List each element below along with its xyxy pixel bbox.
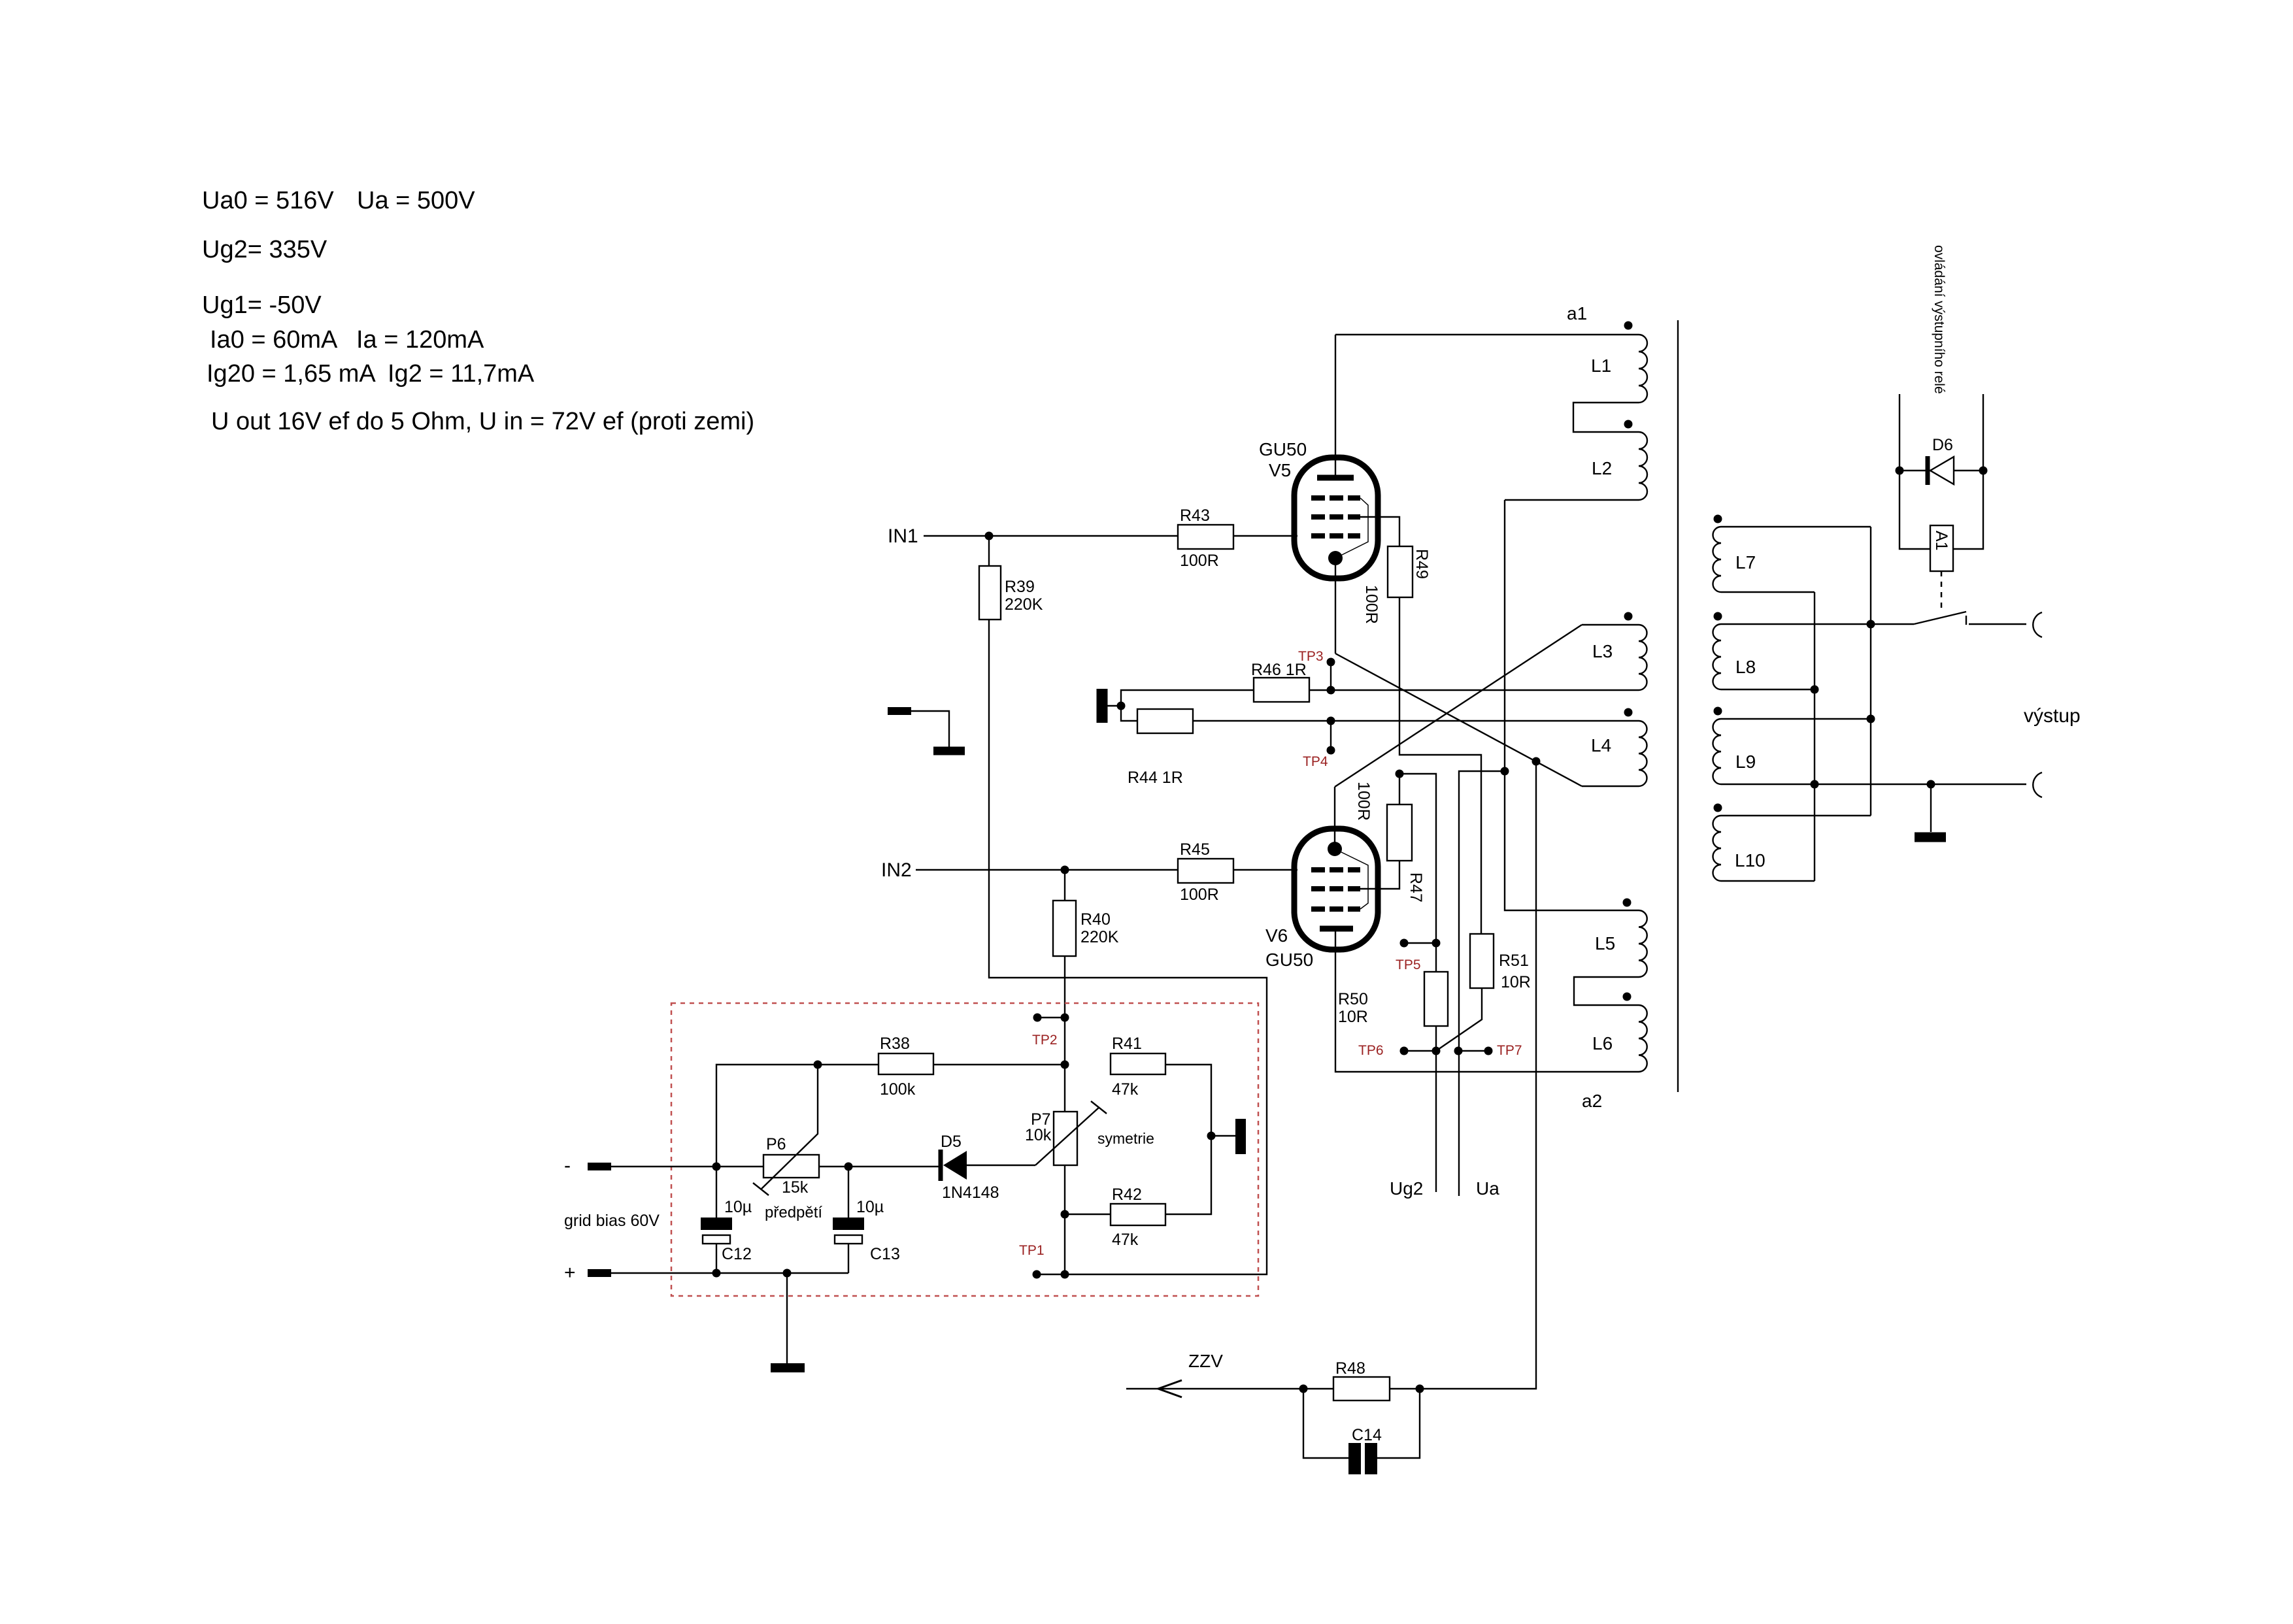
wire L8 bottom bbox=[1721, 689, 1815, 690]
svg-text:L4: L4 bbox=[1591, 735, 1611, 755]
svg-text:10µ: 10µ bbox=[856, 1198, 884, 1216]
svg-text:IN1: IN1 bbox=[888, 525, 918, 547]
wire Ug2 rail bbox=[1435, 1051, 1437, 1192]
ground bbox=[1097, 689, 1108, 723]
wire R43 to V5 grid bbox=[1233, 535, 1297, 537]
svg-text:R41: R41 bbox=[1112, 1035, 1142, 1053]
svg-text:Ig2 = 11,7mA: Ig2 = 11,7mA bbox=[388, 360, 535, 388]
resistor R44 bbox=[1128, 709, 1193, 787]
svg-text:L9: L9 bbox=[1735, 752, 1756, 772]
svg-text:L6: L6 bbox=[1592, 1033, 1613, 1053]
winding L7 bbox=[1713, 515, 1756, 593]
svg-text:C12: C12 bbox=[722, 1245, 752, 1263]
svg-text:Ua0 = 516V: Ua0 = 516V bbox=[202, 187, 334, 214]
svg-text:A1: A1 bbox=[1932, 531, 1950, 551]
wire R46 to L3 bottom bbox=[1309, 689, 1639, 691]
wire R38 right to junction bbox=[933, 1061, 1069, 1069]
wire P7 bottom to R42 junction bbox=[1061, 1165, 1069, 1274]
wire L10 bottom bbox=[1721, 880, 1815, 882]
svg-text:ZZV: ZZV bbox=[1188, 1351, 1223, 1371]
resistor R48 bbox=[1299, 1359, 1424, 1400]
wire V6 g2 to R47 bbox=[1348, 861, 1399, 889]
svg-text:D6: D6 bbox=[1932, 436, 1953, 454]
tube V5 GU50 bbox=[1259, 439, 1378, 578]
winding L5 bbox=[1595, 899, 1647, 978]
output connector bottom bbox=[2033, 772, 2042, 797]
wire D5 to P7 wiper bbox=[967, 1165, 1035, 1166]
wire relay control left bbox=[1896, 394, 1931, 549]
label Ua bbox=[1476, 1178, 1499, 1199]
node a1 bbox=[1567, 303, 1587, 323]
svg-text:Ia0 = 60mA: Ia0 = 60mA bbox=[210, 326, 338, 354]
svg-text:IN2: IN2 bbox=[881, 859, 912, 881]
winding L3 bbox=[1592, 612, 1647, 691]
ground bbox=[1915, 784, 1946, 842]
winding L2 bbox=[1592, 420, 1647, 501]
svg-text:TP7: TP7 bbox=[1497, 1043, 1522, 1058]
wire R50 to TP6 bbox=[1435, 1026, 1437, 1051]
label vystup bbox=[2024, 705, 2081, 727]
terminal stub bbox=[888, 707, 949, 747]
svg-text:grid bias 60V: grid bias 60V bbox=[564, 1212, 660, 1230]
wire junction to P7 top bbox=[1064, 1065, 1065, 1112]
label Ug2 bbox=[1390, 1178, 1423, 1199]
svg-text:R51: R51 bbox=[1499, 952, 1529, 970]
wire a1 top bbox=[1335, 334, 1639, 335]
diode D5 1N4148 bbox=[941, 1133, 999, 1202]
resistor R40 bbox=[1053, 870, 1119, 956]
test point TP2 bbox=[1032, 1014, 1069, 1048]
svg-text:výstup: výstup bbox=[2024, 705, 2081, 727]
svg-text:P6: P6 bbox=[766, 1135, 786, 1153]
winding L9 bbox=[1713, 707, 1756, 785]
relay coil A1 bbox=[1930, 525, 1953, 571]
svg-text:TP6: TP6 bbox=[1358, 1043, 1384, 1058]
wire L1 to L2 bbox=[1573, 403, 1639, 432]
resistor R38 bbox=[879, 1035, 933, 1099]
diode D6 bbox=[1900, 436, 1983, 485]
svg-text:TP4: TP4 bbox=[1303, 754, 1328, 769]
svg-text:symetrie: symetrie bbox=[1097, 1130, 1154, 1147]
wire L10 top bbox=[1721, 815, 1871, 816]
node ZZV bbox=[1188, 1351, 1223, 1371]
svg-text:10R: 10R bbox=[1501, 973, 1531, 991]
winding L1 bbox=[1591, 322, 1647, 403]
resistor R50 bbox=[1338, 943, 1448, 1026]
svg-text:47k: 47k bbox=[1112, 1231, 1139, 1249]
wire L8 top bbox=[1721, 623, 1871, 625]
ground bbox=[1211, 1119, 1246, 1154]
node a2 bbox=[1582, 1091, 1602, 1111]
svg-text:L1: L1 bbox=[1591, 356, 1611, 376]
svg-text:L8: L8 bbox=[1735, 657, 1756, 677]
wire cathode V6 diagonal to L3 top bbox=[1335, 625, 1582, 787]
mechanical link (dashed) bbox=[1941, 571, 1943, 613]
wire R40 to bias network bbox=[1064, 956, 1065, 1065]
resistor R51 bbox=[1470, 934, 1531, 991]
ground bbox=[933, 747, 965, 755]
resistor R41 bbox=[1111, 1035, 1165, 1099]
wire R39 bottom to bias network bbox=[989, 620, 1267, 1274]
svg-text:C13: C13 bbox=[870, 1245, 900, 1263]
resistor R46 bbox=[1251, 661, 1309, 702]
svg-text:TP2: TP2 bbox=[1032, 1033, 1058, 1048]
svg-text:L5: L5 bbox=[1595, 933, 1615, 953]
svg-text:R39: R39 bbox=[1005, 578, 1035, 596]
svg-text:Ua = 500V: Ua = 500V bbox=[357, 187, 475, 214]
svg-text:R48: R48 bbox=[1335, 1359, 1365, 1378]
svg-text:100R: 100R bbox=[1180, 886, 1219, 904]
wire minus terminal to P6 bbox=[564, 1155, 763, 1176]
winding L8 bbox=[1713, 612, 1756, 690]
svg-text:+: + bbox=[564, 1262, 576, 1284]
wire L3 top stub bbox=[1582, 624, 1639, 625]
tube V6 GU50 bbox=[1265, 829, 1378, 970]
svg-text:47k: 47k bbox=[1112, 1080, 1139, 1099]
wire L2 bottom out bbox=[1505, 499, 1639, 501]
resistor R42 bbox=[1111, 1185, 1165, 1249]
potentiometer P7 bbox=[1025, 1101, 1107, 1165]
wire L5 to L6 bbox=[1574, 977, 1639, 1005]
wire L2 bottom to L5 top (Ua feed) bbox=[1501, 500, 1639, 910]
node IN1 bbox=[888, 525, 918, 547]
svg-text:15k: 15k bbox=[782, 1178, 809, 1197]
wire L7 top bbox=[1721, 526, 1871, 527]
wire R45 to V6 grid bbox=[1233, 869, 1297, 870]
svg-text:220K: 220K bbox=[1080, 928, 1119, 946]
transformer core bbox=[1677, 320, 1679, 1092]
output connector top bbox=[2033, 612, 2042, 637]
svg-text:R43: R43 bbox=[1180, 506, 1210, 525]
svg-text:V5: V5 bbox=[1269, 460, 1291, 480]
label symetrie bbox=[1097, 1130, 1154, 1147]
ground bbox=[771, 1273, 805, 1372]
svg-text:220K: 220K bbox=[1005, 595, 1043, 614]
wire R41 R42 right side bbox=[1165, 1065, 1216, 1214]
wire V6 anode down to a2 bbox=[1335, 929, 1639, 1072]
svg-text:Ug2: Ug2 bbox=[1390, 1178, 1423, 1199]
svg-text:-: - bbox=[564, 1155, 571, 1176]
wire Ua rail bbox=[1459, 771, 1505, 1196]
capacitor C12 bbox=[701, 1167, 752, 1273]
wire R44 to L4 top bbox=[1193, 720, 1639, 721]
wire cathode V5 diagonal to L4 bottom bbox=[1335, 654, 1582, 786]
svg-text:100k: 100k bbox=[880, 1080, 916, 1099]
svg-text:TP1: TP1 bbox=[1019, 1243, 1045, 1258]
svg-text:R44 1R: R44 1R bbox=[1128, 769, 1183, 787]
wire V6 cathode up bbox=[1334, 787, 1335, 849]
svg-text:Ug2= 335V: Ug2= 335V bbox=[202, 236, 327, 263]
svg-text:L7: L7 bbox=[1735, 552, 1756, 572]
wire cathode sense column to R48 bbox=[1420, 761, 1536, 1389]
capacitor C13 bbox=[833, 1167, 900, 1273]
test point TP7 bbox=[1454, 1043, 1522, 1058]
svg-text:Ug1= -50V: Ug1= -50V bbox=[202, 291, 322, 319]
svg-text:R42: R42 bbox=[1112, 1185, 1142, 1204]
wire R38 left to P6 wiper and minus rail bbox=[712, 1061, 879, 1171]
wire IN1 to R43 bbox=[924, 532, 1178, 540]
svg-text:TP5: TP5 bbox=[1396, 957, 1421, 972]
winding L4 bbox=[1591, 708, 1647, 787]
svg-text:L3: L3 bbox=[1592, 641, 1613, 661]
wire secondary hot bus bbox=[1867, 527, 1875, 816]
svg-text:V6: V6 bbox=[1265, 925, 1288, 946]
svg-text:100R: 100R bbox=[1362, 585, 1381, 624]
svg-text:Ig20 = 1,65 mA: Ig20 = 1,65 mA bbox=[207, 360, 376, 388]
header text block bbox=[202, 187, 754, 435]
potentiometer P6 bbox=[753, 1065, 822, 1221]
wire ZZV with arrow bbox=[1126, 1380, 1303, 1397]
wire P6 to D5 bbox=[819, 1163, 939, 1171]
wire V5 anode up to a1 bbox=[1335, 335, 1336, 478]
svg-text:R50: R50 bbox=[1338, 990, 1368, 1008]
svg-text:R49: R49 bbox=[1413, 549, 1431, 579]
svg-text:a1: a1 bbox=[1567, 303, 1587, 323]
svg-text:10µ: 10µ bbox=[724, 1198, 752, 1216]
wire R47 top to Ug2 column bbox=[1396, 770, 1437, 944]
wire IN2 to R45 bbox=[916, 866, 1178, 874]
test point TP6 bbox=[1358, 1043, 1441, 1058]
svg-text:D5: D5 bbox=[941, 1133, 962, 1151]
label ovladani vystupniho rele bbox=[1932, 245, 1947, 394]
wire R42 left bbox=[1065, 1214, 1111, 1215]
svg-text:C14: C14 bbox=[1352, 1426, 1382, 1444]
svg-text:předpětí: předpětí bbox=[765, 1204, 822, 1221]
wire L9 bottom to output return bbox=[1721, 780, 2026, 789]
svg-text:Ua: Ua bbox=[1476, 1178, 1499, 1199]
svg-text:R47: R47 bbox=[1407, 872, 1425, 903]
svg-text:100R: 100R bbox=[1180, 552, 1219, 570]
svg-text:100R: 100R bbox=[1354, 782, 1373, 821]
wire L7 bottom bbox=[1721, 591, 1815, 593]
capacitor C14 bbox=[1303, 1389, 1420, 1474]
wire relay control right bbox=[1953, 394, 1988, 549]
wire R51 bottom to TP6 junction bbox=[1436, 988, 1482, 1051]
test point TP4 bbox=[1303, 717, 1335, 770]
wire ground to R44 R46 bbox=[1107, 690, 1254, 721]
wire R49 to R51 bbox=[1399, 597, 1481, 934]
test point TP5 bbox=[1396, 939, 1441, 973]
wire V5 g2 to R49 bbox=[1348, 517, 1399, 546]
svg-text:R45: R45 bbox=[1180, 840, 1210, 859]
svg-text:L2: L2 bbox=[1592, 458, 1612, 478]
switch bbox=[1871, 612, 2026, 625]
svg-text:R38: R38 bbox=[880, 1035, 910, 1053]
winding L6 bbox=[1592, 993, 1647, 1072]
label grid bias 60V bbox=[564, 1212, 660, 1230]
resistor R39 bbox=[979, 536, 1043, 620]
bias network enclosure (red dashed) bbox=[671, 1003, 1258, 1296]
wire secondary return bus bbox=[1811, 592, 1819, 881]
wire V5 cathode down bbox=[1335, 558, 1336, 654]
resistor R49 bbox=[1362, 546, 1431, 624]
svg-text:ovládání výstupního relé: ovládání výstupního relé bbox=[1932, 245, 1947, 394]
wire L9 top bbox=[1721, 718, 1871, 720]
test point TP1 bbox=[1019, 1243, 1069, 1279]
resistor R45 bbox=[1178, 840, 1233, 904]
svg-text:Ia = 120mA: Ia = 120mA bbox=[356, 326, 484, 354]
resistor R43 bbox=[1178, 506, 1233, 570]
svg-text:TP3: TP3 bbox=[1298, 649, 1324, 664]
node IN2 bbox=[881, 859, 912, 881]
svg-text:a2: a2 bbox=[1582, 1091, 1602, 1111]
resistor R47 bbox=[1354, 782, 1425, 903]
wire plus terminal rail bbox=[564, 1262, 848, 1284]
svg-text:10R: 10R bbox=[1338, 1008, 1368, 1026]
svg-text:U out 16V ef do 5 Ohm, U in =: U out 16V ef do 5 Ohm, U in = 72V ef (pr… bbox=[211, 408, 754, 435]
winding L10 bbox=[1713, 804, 1766, 882]
svg-text:1N4148: 1N4148 bbox=[942, 1184, 999, 1202]
svg-text:GU50: GU50 bbox=[1265, 950, 1313, 970]
svg-text:R40: R40 bbox=[1080, 910, 1111, 929]
test point TP3 bbox=[1298, 649, 1335, 695]
svg-text:GU50: GU50 bbox=[1259, 439, 1307, 459]
wire L4 bottom stub bbox=[1582, 786, 1639, 787]
svg-text:L10: L10 bbox=[1735, 850, 1766, 870]
svg-text:10k: 10k bbox=[1025, 1126, 1052, 1144]
